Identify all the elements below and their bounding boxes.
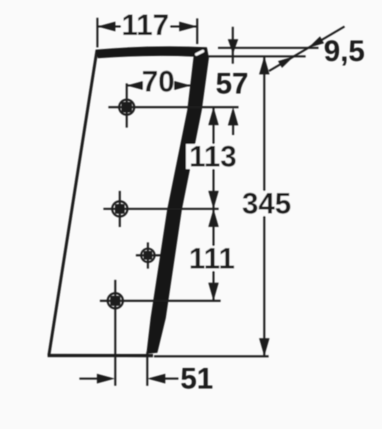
bottom edge extension line <box>154 355 269 357</box>
dim 117 extension line right <box>196 18 198 44</box>
dim 70 arrow right <box>173 81 191 91</box>
dim 345 label <box>239 191 295 216</box>
dim 57 upper arrow <box>232 27 234 64</box>
dim 9,5 diagonal leader <box>269 27 345 72</box>
hole H1 <box>119 100 134 115</box>
part top+right thick edge band <box>96 46 209 354</box>
hole H3 center lines <box>136 254 161 256</box>
dim 113 label <box>186 144 240 169</box>
dim 117 arrow right <box>179 22 197 32</box>
top surface reference line <box>218 47 319 49</box>
dim 9,5 arrow lower <box>278 56 294 68</box>
svg-text:57: 57 <box>216 67 249 100</box>
dim 113 line <box>212 107 214 209</box>
dim 345 upper arrow <box>259 56 269 74</box>
svg-text:117: 117 <box>122 9 170 42</box>
svg-text:51: 51 <box>180 362 213 395</box>
svg-text:70: 70 <box>142 66 175 99</box>
dim 70 arrow left <box>127 81 145 91</box>
dim 345 lower arrow <box>259 338 269 356</box>
svg-text:345: 345 <box>242 188 291 221</box>
dim 117 label <box>121 13 170 36</box>
part bottom edge <box>48 354 153 357</box>
dim 51 right arrow+line <box>147 374 165 384</box>
hole H4 center lines <box>100 300 221 302</box>
dim 9,5 arrow upper <box>308 36 324 48</box>
dim 113 lower arrow <box>208 191 218 209</box>
dim 113 upper arrow <box>208 107 218 125</box>
hole H2 center lines <box>103 208 218 210</box>
dim 70 line <box>127 84 191 86</box>
svg-text:9,5: 9,5 <box>324 35 365 68</box>
dim 57 lower arrow <box>228 107 238 125</box>
svg-text:113: 113 <box>189 141 237 174</box>
part left edge <box>49 50 97 355</box>
dim 70 label <box>143 71 174 93</box>
dim 111 upper arrow <box>208 209 218 227</box>
corner highlight notch <box>197 51 203 54</box>
svg-text:111: 111 <box>189 243 235 276</box>
hole H1 center lines <box>108 106 238 108</box>
dim 51 left line+arrow <box>79 378 100 380</box>
dim 111 line <box>212 209 214 301</box>
dim 117 extension line left <box>96 18 98 48</box>
hole H2 <box>112 201 127 216</box>
hole H3 <box>141 249 154 262</box>
dim 111 lower arrow <box>208 283 218 301</box>
dim 345 line <box>263 56 265 356</box>
lower surface reference line <box>208 55 306 57</box>
dim 111 label <box>186 246 240 271</box>
dim 117 arrow left <box>97 22 115 32</box>
dim 51 right extension line <box>146 352 148 386</box>
hole H4 <box>108 293 123 308</box>
dim 117 line <box>97 25 197 27</box>
